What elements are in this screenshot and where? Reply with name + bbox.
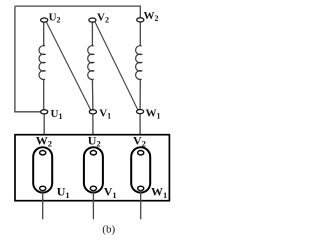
wire: coil W bottom to W1 [139,80,141,110]
terminal W1 [137,110,144,114]
link bar W2-U1 [33,147,52,192]
box terminal W1 (bottom of link 3) [138,186,144,190]
terminal V2 [89,18,96,22]
box terminal U1 (bottom of link 1) [40,186,46,190]
coil U (winding U2-U1) [39,45,45,80]
svg-text:W1: W1 [151,185,167,200]
wire: diagonal U2 to V1 [46,22,90,110]
svg-text:U1: U1 [57,185,70,200]
svg-text:V2: V2 [133,133,146,148]
box terminal V2 (top of link 3) [138,151,144,155]
svg-text:U1: U1 [51,108,63,121]
terminal U2 [41,18,48,22]
coil V (winding V2-V1) [88,45,94,80]
wire: W1 stub to terminal box [139,114,141,135]
wire: top rail W2 to left rail [15,6,140,18]
wire: coil U bottom to U1 [43,80,45,110]
terminal V1 [89,110,96,114]
svg-text:V1: V1 [104,185,117,200]
wire: supply lead from U1 link [42,191,44,220]
wire: supply lead from W1 link [140,191,142,220]
wire: left rail down to U1 [15,6,41,112]
svg-text:V1: V1 [99,108,111,121]
link bar V2-W1 [131,147,150,192]
wire: U2 to coil top [43,22,45,45]
svg-text:W1: W1 [146,107,161,120]
wire: V2 to coil top [91,22,93,45]
wire: W2 to coil top [139,22,141,45]
terminal W2 [137,18,144,22]
svg-text:U2: U2 [88,133,101,148]
svg-text:W2: W2 [36,133,52,148]
box terminal U2 (top of link 2) [90,151,96,155]
svg-text:W2: W2 [144,10,159,23]
coil W (winding W2-W1) [136,45,142,80]
wire: V1 stub to terminal box [92,114,94,135]
terminal box [15,135,169,201]
wire: coil V bottom to V1 [91,80,94,110]
box terminal V1 (bottom of link 2) [90,186,96,190]
wire: diagonal V2 to W1 [95,22,138,110]
terminal U1 [41,110,48,114]
svg-text:V2: V2 [97,11,109,24]
svg-text:U2: U2 [49,12,61,25]
box terminal W2 (top of link 1) [40,151,46,155]
svg-text:(b): (b) [102,223,115,235]
wire: supply lead from V1 link [92,191,94,220]
link bar U2-V1 [84,147,103,192]
wire: U1 stub to terminal box [43,114,45,135]
